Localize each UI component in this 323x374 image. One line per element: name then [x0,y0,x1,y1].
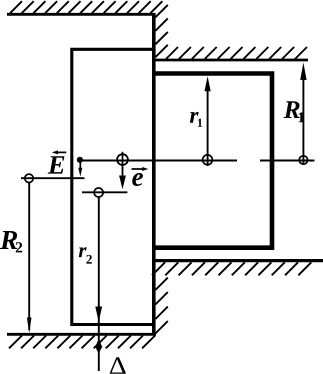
label R2 [0,231,17,249]
top-left ceiling wall line [7,13,156,16]
line through point E (left offset line) [21,177,85,179]
node circle r2 centre [94,188,103,197]
node circle on E line (R2 origin) [25,174,33,182]
right ceiling hatch [166,47,307,59]
label r2 [79,247,87,257]
crosshair circle (original centre) [117,154,128,165]
arrowhead R2 [27,318,32,334]
arrowhead R1 [300,63,306,81]
node circle R1 centre [299,156,307,164]
eccentricity arrow e (down from crosshair) [122,167,124,180]
bottom-left floor hatch [9,336,155,349]
right ceiling wall line [152,59,308,62]
label E with vector bar [48,156,65,173]
wall step edge hatch (top corner) [155,5,167,57]
right block (thick rectangle) [154,74,272,248]
dimension line R2 (down to floor) [28,183,30,330]
node circle r1 centre [203,155,213,165]
gap arrows Delta (below floor) [95,339,102,348]
dimension line r1 (up to block top) [207,88,209,166]
dimension line r2 (down to block bottom) [98,197,100,371]
right floor hatch [152,262,311,275]
wall step vertical edge / shared boundary line [152,13,156,335]
wall step edge hatch (bottom corner) [155,278,167,334]
small arrow from E down to E-line [79,161,81,170]
bottom-left floor wall line [7,333,156,336]
label e with vector arrow [132,173,143,186]
left block (tall rectangle) [72,49,154,326]
horizontal centerline (right segment) [260,160,315,162]
top-left ceiling hatch [10,1,162,13]
label Delta [110,357,126,373]
right floor wall line [152,259,323,262]
pin point E on centerline (filled dot) [77,157,83,163]
horizontal centerline (left segment) [80,160,237,162]
line through r2 centre [82,191,127,193]
arrowhead r1 [205,76,211,91]
label R1 [284,101,300,118]
dimension line R1 (up to ceiling) [302,77,304,165]
arrowhead r2 at block bottom [95,307,102,323]
label r1 [190,112,199,123]
